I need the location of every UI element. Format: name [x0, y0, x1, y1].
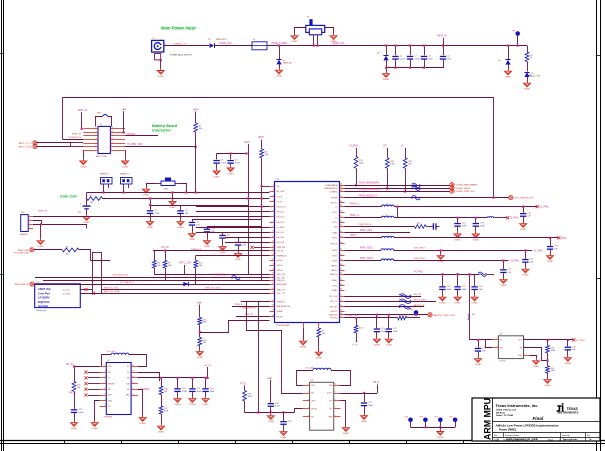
svg-text:VIO_IN: VIO_IN	[277, 250, 284, 252]
svg-text:MSECURE_IN: MSECURE_IN	[14, 284, 29, 286]
ground C24	[174, 397, 181, 407]
svg-text:IO_MUX: IO_MUX	[277, 227, 285, 229]
title description	[496, 424, 559, 432]
wire C28 gnd	[283, 425, 285, 430]
wire I2C SDA long	[101, 289, 269, 291]
svg-text:10uF: 10uF	[462, 226, 467, 228]
wire pullup 2 stub	[387, 148, 389, 158]
svg-text:VBAT: VBAT	[244, 141, 250, 144]
ground C17	[500, 278, 507, 288]
svg-text:Document Number: Document Number	[505, 434, 520, 437]
off-page MSECURE	[18, 248, 34, 252]
TI logo	[557, 403, 579, 414]
svg-text:DGND: DGND	[177, 227, 184, 229]
ground C13	[454, 232, 461, 242]
net label PWR_PG	[347, 315, 357, 317]
title company	[496, 403, 539, 417]
wire cap bank gnd stem	[385, 67, 387, 72]
svg-text:10k: 10k	[203, 342, 206, 344]
section label Battery Board Connector	[152, 124, 178, 133]
svg-text:12: 12	[272, 241, 274, 243]
capacitor C12	[235, 242, 247, 247]
net label PWRON	[127, 134, 136, 136]
svg-text:VMAIN_DIO: VMAIN_DIO	[219, 42, 232, 45]
resistor R19	[546, 345, 555, 353]
ferrite FB6	[478, 272, 487, 276]
svg-text:24: 24	[272, 292, 274, 294]
svg-text:VBAT: VBAT	[197, 302, 203, 305]
resistor R16	[159, 386, 168, 395]
wire jack to ground	[160, 60, 162, 68]
wire tap C10	[207, 227, 262, 229]
wire row V3 a	[345, 260, 382, 262]
svg-text:10k: 10k	[265, 154, 268, 156]
resistor R15	[72, 381, 81, 391]
wire U3 loop a	[297, 371, 314, 386]
wire MSECURE b	[79, 250, 110, 261]
svg-text:GND: GND	[108, 400, 113, 402]
svg-text:20: 20	[272, 276, 274, 278]
resistor R5	[87, 195, 103, 204]
svg-text:21: 21	[272, 279, 274, 281]
svg-text:10uF: 10uF	[447, 289, 452, 291]
wire C21 C22 gnd	[377, 332, 389, 337]
svg-text:DGND: DGND	[475, 364, 482, 366]
svg-text:DGND: DGND	[343, 433, 350, 435]
capacitor C3	[421, 56, 434, 61]
svg-text:MSECURE: MSECURE	[18, 250, 29, 252]
wire U4 in cap tap	[477, 339, 479, 348]
wire U3 mode riser	[295, 409, 303, 413]
svg-text:SDA_SR: SDA_SR	[277, 279, 286, 282]
ferrite FB2	[232, 275, 241, 279]
label I2C rows	[205, 286, 220, 289]
net label VMAIN_FUSED	[271, 42, 288, 45]
flag label row V1	[414, 248, 426, 250]
svg-text:TP_B: TP_B	[240, 383, 246, 385]
svg-text:Battery Board: Battery Board	[152, 124, 178, 128]
ground C18	[439, 295, 446, 305]
wire I2C link top	[92, 252, 101, 254]
resistor R3	[194, 123, 202, 132]
svg-text:DGND: DGND	[189, 239, 196, 241]
resistor R10	[194, 260, 203, 268]
wire C18 gnd stem	[442, 290, 444, 295]
net label PWR_VDD1	[360, 248, 373, 250]
wire U2 left stubs	[84, 371, 99, 397]
wire C24 gnd	[177, 392, 179, 396]
diode D4	[498, 60, 511, 65]
net label PB_IN	[69, 393, 76, 395]
svg-text:7: 7	[273, 215, 274, 217]
svg-text:VB_IN: VB_IN	[66, 364, 73, 366]
wire VBAT stub down	[195, 112, 197, 124]
label L5	[305, 367, 314, 369]
svg-text:470k: 470k	[164, 411, 168, 413]
svg-text:DGND: DGND	[383, 79, 390, 81]
label V4 out	[576, 340, 585, 342]
capacitor C27	[361, 402, 374, 407]
svg-text:26: 26	[272, 305, 274, 307]
svg-text:45: 45	[340, 279, 342, 281]
svg-text:DGND: DGND	[331, 41, 338, 43]
connector J2	[71, 124, 125, 158]
svg-text:V1_B: V1_B	[352, 345, 358, 347]
label VBACKUP	[38, 210, 48, 213]
ground C29	[475, 357, 482, 367]
ground pushbutton	[143, 187, 150, 197]
svg-text:D3: D3	[377, 53, 379, 55]
svg-text:9: 9	[273, 225, 274, 227]
svg-text:EN_LDO1: EN_LDO1	[277, 207, 287, 209]
diode D3	[377, 53, 389, 61]
svg-text:V1_PMU: V1_PMU	[540, 207, 550, 209]
wire divider	[546, 340, 548, 366]
svg-text:Date:: Date:	[494, 438, 499, 441]
svg-text:1: 1	[273, 184, 274, 186]
ground C11	[219, 245, 226, 255]
svg-text:28: 28	[272, 315, 274, 317]
wire row V1 long	[394, 206, 536, 208]
label VBAT u3	[267, 377, 273, 380]
svg-text:SCL_SR: SCL_SR	[277, 277, 285, 279]
svg-text:3: 3	[96, 134, 97, 136]
wire tap C11	[223, 233, 270, 235]
svg-text:DGND: DGND	[439, 303, 446, 305]
svg-text:POWER JACK SWITCH: POWER JACK SWITCH	[170, 54, 192, 57]
capacitor C18	[439, 286, 452, 291]
wire C8 gnd stem	[180, 214, 182, 219]
svg-text:INSTRUMENTS: INSTRUMENTS	[558, 411, 579, 415]
ground test points	[437, 429, 444, 439]
off-page backup	[428, 313, 455, 317]
svg-text:VDD3: VDD3	[332, 260, 338, 262]
svg-text:47: 47	[340, 268, 342, 270]
svg-text:10k: 10k	[199, 265, 202, 267]
ground C6	[227, 166, 234, 176]
wire row VRTC	[394, 237, 558, 239]
svg-text:DGND: DGND	[214, 176, 221, 178]
wire vrtc tap	[184, 265, 186, 274]
svg-text:V1_PMU: V1_PMU	[349, 146, 359, 148]
wire cap bank bottom bus	[387, 60, 444, 69]
test point TP6	[449, 417, 457, 423]
net label VMAIN_DIO	[219, 42, 232, 45]
svg-text:DGND: DGND	[158, 76, 165, 78]
svg-text:JP4: JP4	[21, 212, 24, 214]
svg-text:PM_PWRON_PU: PM_PWRON_PU	[113, 275, 129, 277]
ground R7	[315, 350, 322, 360]
inductor L6	[381, 236, 394, 238]
svg-text:10: 10	[272, 231, 274, 233]
wire coin cell top rail	[87, 192, 196, 194]
label PWRHOLD	[191, 249, 202, 251]
ground R20	[544, 378, 551, 388]
svg-text:VCC1: VCC1	[332, 212, 338, 214]
wire row VRTC a	[345, 237, 382, 239]
capacitor C1	[392, 56, 405, 61]
svg-text:1: 1	[497, 338, 498, 340]
wire R11 to node	[199, 325, 201, 338]
label gpio1	[414, 299, 427, 301]
wire gnd tap	[40, 224, 42, 238]
wire U4 fb	[524, 348, 548, 361]
svg-text:EN_LS1: EN_LS1	[277, 232, 285, 234]
wire R4 stub	[261, 140, 263, 149]
wire R1 to LED	[527, 62, 529, 72]
svg-text:7: 7	[105, 399, 106, 401]
svg-text:GND: GND	[311, 401, 316, 403]
svg-text:DGND: DGND	[203, 404, 210, 406]
ground C15	[547, 254, 554, 264]
wire jack pin loop	[153, 52, 162, 61]
wire TP6 stem	[455, 422, 457, 428]
svg-text:PWRHOLD: PWRHOLD	[277, 255, 288, 257]
svg-text:10k: 10k	[199, 128, 202, 130]
svg-text:VRTC: VRTC	[561, 238, 568, 240]
svg-text:16: 16	[272, 259, 274, 261]
svg-text:10k: 10k	[157, 265, 160, 267]
svg-text:10k: 10k	[168, 265, 171, 267]
fuse F1	[252, 39, 267, 50]
svg-text:56: 56	[340, 221, 342, 223]
svg-text:}: }	[468, 315, 470, 321]
wire connector gnd stubs	[84, 150, 126, 159]
wire U2 right gnd stub	[138, 390, 143, 416]
svg-text:11: 11	[272, 236, 274, 238]
svg-text:DGND: DGND	[524, 89, 531, 91]
svg-text:PG_IN: PG_IN	[204, 365, 211, 367]
wire row V3 tap	[502, 260, 504, 270]
ground U4	[533, 359, 540, 369]
section label Coin Cell	[60, 195, 77, 199]
ferrite FB1	[96, 113, 112, 127]
svg-text:1k: 1k	[530, 57, 532, 59]
off-page r1	[450, 183, 477, 187]
capacitor C2	[407, 56, 420, 61]
svg-text:5: 5	[96, 141, 97, 143]
svg-text:2: 2	[308, 391, 309, 393]
wire row L2 c	[494, 217, 507, 219]
wire VBAT_IN drop	[81, 112, 83, 130]
svg-text:63: 63	[340, 187, 342, 189]
wire VBACKUP row	[33, 216, 270, 218]
svg-text:DGND: DGND	[84, 222, 91, 224]
svg-text:PG: PG	[277, 186, 280, 188]
wire row 277 long	[35, 277, 270, 279]
svg-text:DGND: DGND	[197, 357, 204, 359]
svg-text:4.7uF: 4.7uF	[154, 213, 160, 215]
svg-text:VAUX1: VAUX1	[331, 265, 338, 268]
wire pullup 3 down	[404, 168, 406, 192]
ground below power jack	[157, 68, 164, 78]
wire C9 gnd stem	[192, 226, 194, 232]
ground C31	[520, 222, 527, 232]
svg-text:VCC2: VCC2	[332, 222, 338, 224]
svg-text:SMAJ5.0A: SMAJ5.0A	[283, 61, 293, 64]
diode D1	[208, 39, 226, 48]
svg-text:27: 27	[272, 310, 274, 312]
svg-text:10k: 10k	[408, 163, 411, 165]
svg-text:TPS65910A3: TPS65910A3	[276, 324, 290, 327]
svg-text:Rev: Rev	[587, 435, 590, 437]
svg-text:EN_DC3: EN_DC3	[277, 222, 286, 224]
svg-text:PWR_NRESOUT: PWR_NRESOUT	[359, 196, 377, 198]
wire connector right nets	[125, 136, 197, 148]
wire U1 bottom gnd	[303, 328, 305, 339]
svg-text:46: 46	[340, 273, 342, 275]
wire C19 gnd stem	[457, 290, 459, 295]
capacitor C22	[386, 328, 399, 333]
wire U2 vin drop	[73, 365, 75, 381]
wire U3 loop b	[331, 371, 351, 386]
svg-text:100k: 100k	[390, 163, 394, 165]
svg-text:2: 2	[559, 439, 560, 441]
svg-text:0.1uF: 0.1uF	[400, 58, 406, 60]
inductor L2	[381, 215, 394, 218]
svg-text:DGND: DGND	[169, 207, 176, 209]
wire U4 en jumper	[486, 340, 493, 348]
svg-text:BOOT0: BOOT0	[331, 311, 339, 313]
net label PWR_SCL	[214, 275, 226, 277]
wire switch right leg	[325, 28, 334, 34]
svg-text:GPIO0: GPIO0	[277, 260, 284, 262]
off-page r2	[450, 186, 471, 190]
svg-text:DGND: DGND	[316, 358, 323, 360]
note brace	[468, 314, 476, 321]
wire row V4 b	[487, 274, 495, 276]
svg-text:41: 41	[340, 300, 342, 302]
svg-text:PB_IN: PB_IN	[277, 316, 283, 318]
wire U4 out	[524, 339, 574, 341]
svg-text:2: 2	[273, 190, 274, 192]
svg-text:DGND: DGND	[455, 303, 462, 305]
ground C8	[177, 220, 184, 230]
capacitor C20	[471, 286, 483, 291]
ground U2 right	[139, 416, 146, 426]
svg-text:SDA_CTL: SDA_CTL	[277, 288, 287, 291]
svg-text:Green LED: Green LED	[531, 75, 541, 78]
net label VBAT_IN	[78, 109, 88, 112]
net label PWR_L1	[350, 204, 360, 206]
ground C20	[471, 295, 478, 305]
svg-text:VAUX33: VAUX33	[330, 273, 338, 276]
junction row V4 left	[442, 274, 469, 276]
svg-text:PWRON_IN: PWRON_IN	[71, 137, 82, 139]
svg-text:4: 4	[29, 226, 30, 228]
title block	[472, 398, 600, 441]
svg-text:DGND: DGND	[473, 239, 480, 241]
pushbutton S2	[155, 178, 181, 191]
inductor L1	[381, 203, 394, 206]
wire pullup 1 stub	[356, 148, 358, 156]
svg-text:12: 12	[132, 388, 134, 390]
wire VIO row	[153, 250, 270, 252]
wire vbat cap bus	[217, 152, 248, 159]
wire U3 pad gnd	[341, 401, 346, 426]
net label TS_VBAT_SNS	[127, 143, 144, 146]
junction U4 out	[546, 338, 575, 341]
ground connector left	[80, 159, 87, 169]
svg-text:BACKUP: BACKUP	[329, 314, 338, 317]
capacitor C13	[454, 223, 467, 228]
wire C7 gnd	[150, 214, 152, 219]
svg-text:PWR_I2C_SDA: PWR_I2C_SDA	[205, 286, 220, 289]
wire U3 vin vert	[282, 330, 303, 394]
IC U2 supervisor	[100, 360, 138, 419]
svg-text:SYSEN_NRES: SYSEN_NRES	[455, 188, 470, 190]
flag label row V3	[414, 258, 426, 260]
wire feed VIN to U3	[247, 302, 282, 331]
wire C28 stub	[283, 412, 285, 420]
wire row 232	[345, 232, 411, 234]
svg-text:42: 42	[340, 294, 342, 296]
svg-text:DGND: DGND	[533, 366, 540, 368]
label PWR_PB	[245, 314, 254, 316]
net label VRTC	[561, 238, 568, 240]
resistor R21	[354, 156, 363, 168]
wire R24 gnd	[199, 346, 201, 350]
wire PG route	[200, 321, 270, 333]
label V1_B	[352, 333, 358, 347]
wire tp bus gnd	[440, 427, 442, 429]
svg-text:7: 7	[96, 149, 97, 151]
svg-text:60: 60	[340, 201, 342, 203]
ground U2 left	[91, 421, 98, 431]
svg-text:53: 53	[340, 236, 342, 238]
wire drop V1_B	[355, 317, 357, 326]
capacitor C21	[374, 328, 387, 333]
IC U3 buck	[303, 380, 341, 430]
svg-text:IO_IN: IO_IN	[277, 201, 283, 203]
net label VBAT	[244, 141, 250, 144]
wire row PG a	[345, 317, 398, 319]
flag text row 277	[113, 275, 129, 277]
ferrite FBg0	[399, 294, 411, 298]
net label VB_IN	[66, 364, 73, 366]
svg-text:SPI_CLK: SPI_CLK	[414, 294, 423, 296]
header JP2	[100, 173, 112, 185]
wire C26 gnd	[205, 392, 207, 396]
ferrite FBg1	[399, 299, 411, 303]
wire caps cluster bus	[441, 273, 474, 286]
wire vrtc cap stub	[550, 238, 552, 246]
svg-text:VMAIN_+5V: VMAIN_+5V	[174, 42, 187, 45]
svg-text:ARM MPU: ARM MPU	[483, 398, 493, 440]
svg-text:8: 8	[111, 149, 112, 151]
svg-text:2: 2	[105, 371, 106, 373]
net label V4_PMU	[414, 272, 424, 274]
svg-text:2.2uF: 2.2uF	[182, 391, 188, 393]
wire C29 gnd	[478, 352, 480, 357]
wire JP4 loop	[33, 221, 42, 225]
header JP3	[120, 173, 132, 185]
wire C10 gnd stem	[207, 233, 209, 239]
svg-text:768k: 768k	[551, 350, 555, 352]
wire row STB a	[345, 226, 415, 228]
svg-text:8: 8	[273, 220, 274, 222]
net label VIO_IN	[161, 247, 169, 249]
svg-text:12: 12	[111, 134, 113, 136]
svg-text:VIO_IN: VIO_IN	[161, 247, 169, 249]
wire row NRES	[232, 306, 270, 308]
diode D6	[183, 282, 188, 286]
label VBAT top	[122, 108, 128, 111]
wire C12 gnd stem	[238, 246, 240, 252]
svg-text:62: 62	[340, 190, 342, 192]
svg-text:DGND: DGND	[361, 421, 368, 423]
svg-text:1: 1	[29, 215, 30, 217]
